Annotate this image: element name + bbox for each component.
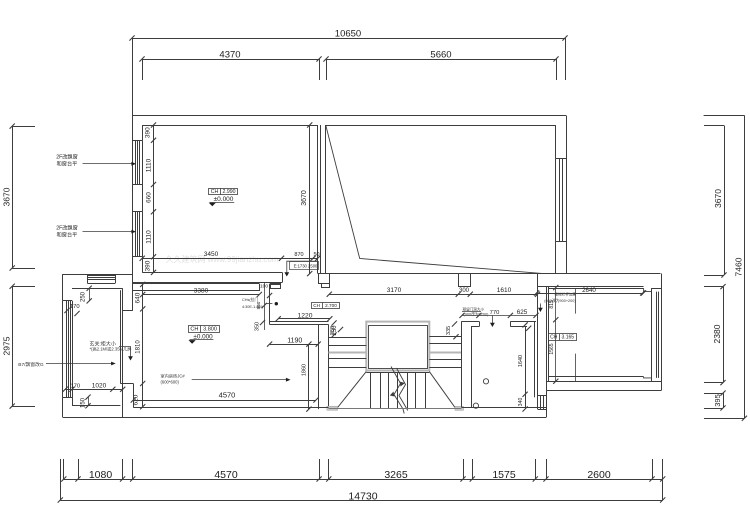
wall top interior bedroom1: [142, 125, 318, 127]
wall top interior room2: [326, 125, 556, 127]
svg-text:1080: 1080: [89, 469, 113, 481]
svg-text:7460: 7460: [734, 257, 744, 276]
svg-text:室内房砖JC#: 室内房砖JC#: [161, 373, 186, 380]
winder diagonal left: [338, 372, 367, 408]
svg-text:E:1730 2500: E:1730 2500: [294, 264, 318, 269]
svg-text:1575: 1575: [492, 469, 516, 481]
svg-text:3670: 3670: [713, 189, 723, 208]
break line zigzag: [391, 367, 404, 414]
svg-text:3670: 3670: [2, 187, 12, 206]
svg-text:3380: 3380: [194, 288, 209, 295]
svg-text:B7/飘窗改G: B7/飘窗改G: [18, 361, 44, 368]
svg-text:815: 815: [549, 300, 555, 309]
svg-text:1810: 1810: [136, 340, 142, 354]
svg-text:3170: 3170: [387, 287, 402, 294]
svg-text:CH: CH: [550, 335, 558, 341]
stair corner block right: [455, 406, 464, 410]
svg-text:100: 100: [260, 284, 268, 290]
balcony top wall: [538, 286, 644, 288]
balcony right glazing: [661, 274, 663, 391]
svg-text:1640: 1640: [518, 355, 524, 367]
svg-text:625: 625: [517, 309, 528, 316]
svg-text:250: 250: [81, 291, 87, 302]
svg-text:2F改飘窗: 2F改飘窗: [56, 153, 78, 161]
dim 3380 living room: [143, 294, 260, 296]
svg-text:770: 770: [490, 310, 500, 316]
pier below room2: [459, 274, 471, 287]
balcony bottom wall: [549, 376, 644, 378]
bathroom top wall left stub: [461, 321, 479, 323]
svg-text:350: 350: [255, 322, 261, 331]
bottom flight treads: [370, 372, 372, 408]
dim 10650 top overall: [132, 38, 565, 40]
svg-text:250: 250: [330, 326, 336, 335]
wall left exterior: [132, 116, 134, 275]
label: [549, 334, 577, 341]
dim 4570 living room bottom: [133, 400, 316, 402]
dim 2975 left: [12, 286, 14, 406]
svg-text:1220: 1220: [298, 312, 313, 319]
entry right wall: [132, 274, 134, 310]
svg-text:CH: CH: [211, 189, 219, 195]
wall left interior segments: [142, 125, 144, 140]
wall band below top rooms: [329, 273, 660, 275]
dim 2640 balcony: [537, 293, 643, 295]
svg-text:1110: 1110: [146, 158, 153, 172]
svg-text:3450: 3450: [204, 251, 219, 258]
svg-text:50: 50: [313, 252, 319, 258]
dim 1220: [278, 318, 330, 320]
svg-text:150: 150: [81, 397, 87, 408]
svg-text:CH: CH: [190, 327, 198, 333]
bathroom top wall right part: [510, 321, 536, 323]
living room left wall bottom jog: [120, 383, 133, 385]
svg-text:2380: 2380: [712, 324, 722, 343]
svg-text:3.800: 3.800: [203, 327, 217, 333]
svg-text:±0.000: ±0.000: [214, 196, 234, 203]
svg-text:和窗台平: 和窗台平: [57, 160, 78, 168]
dim 395 right: [723, 393, 725, 408]
dim 1810 living room left: [142, 310, 144, 384]
dim 14730 bottom overall: [60, 500, 662, 502]
living room right wall: [259, 284, 261, 291]
dim chain bedroom1 left interior: [153, 125, 155, 272]
dim 620 living room left: [142, 384, 144, 407]
dim 3450 bedroom1: [142, 258, 318, 260]
bathroom right wall: [534, 321, 536, 397]
stairwell void: [366, 322, 429, 371]
svg-text:2640: 2640: [582, 287, 596, 294]
svg-text:10650: 10650: [335, 29, 361, 40]
svg-text:1860: 1860: [302, 364, 308, 376]
svg-text:4370: 4370: [219, 50, 240, 61]
svg-text:3265: 3265: [384, 469, 408, 481]
svg-text:3.165: 3.165: [562, 335, 575, 341]
dim row 3170/300/1610: [329, 294, 537, 296]
dim 2380 right: [723, 287, 725, 383]
dim row 170/1020 entry bottom: [65, 389, 123, 391]
dim 7460 right overall: [744, 115, 746, 418]
wall right interior room2: [555, 125, 557, 158]
dim row 770/625: [462, 315, 536, 317]
svg-text:4570: 4570: [214, 469, 238, 481]
balcony notch tick: [641, 290, 646, 295]
bathroom left wall: [461, 321, 463, 407]
bathroom circles: [483, 379, 488, 384]
building bottom wall: [133, 407, 328, 409]
stair treads left flight: [329, 337, 367, 339]
svg-text:395: 395: [713, 394, 722, 407]
window W4 entry left: [63, 300, 72, 302]
balcony interior dim chain: [555, 288, 557, 381]
stairs bottom edge: [329, 408, 462, 410]
label: [189, 326, 220, 333]
door jamb leader bedroom1: [287, 261, 317, 273]
svg-text:2975: 2975: [2, 336, 12, 355]
balcony left wall: [546, 287, 548, 391]
svg-text:1610: 1610: [497, 287, 512, 294]
dim 5660 top: [326, 59, 556, 61]
svg-text:1020: 1020: [92, 383, 107, 390]
dim 250 entry: [89, 288, 91, 301]
living room top wall: [133, 283, 259, 285]
winder diagonal right: [429, 372, 455, 408]
svg-text:1565: 1565: [549, 343, 555, 354]
svg-text:预留门洞大小: 预留门洞大小: [463, 306, 485, 311]
svg-text:4570: 4570: [219, 391, 236, 400]
svg-text:14730: 14730: [348, 491, 377, 503]
stair corner block left: [327, 406, 338, 410]
door centreline arrow: [492, 315, 494, 323]
svg-text:CH: CH: [313, 303, 320, 308]
dim 150 entry bottom: [88, 397, 90, 406]
svg-text:300: 300: [459, 288, 470, 294]
pier right of bedroom door: [319, 274, 330, 284]
dim 1640 bathroom: [525, 327, 527, 395]
svg-text:(600*600): (600*600): [161, 380, 180, 385]
svg-text:2F改飘窗: 2F改飘窗: [56, 224, 78, 232]
step under wall bedroom1: [271, 284, 281, 289]
wall right exterior room2: [566, 116, 568, 274]
entry door recess: [87, 274, 89, 283]
bottom dimension chain: [64, 479, 663, 481]
svg-text:2.700: 2.700: [325, 303, 337, 308]
wall bottom bedroom1: [142, 272, 282, 274]
dim 340 bathroom: [525, 394, 527, 409]
svg-text:860: 860: [256, 301, 261, 309]
svg-text:340: 340: [518, 398, 524, 407]
label: [312, 303, 340, 309]
entry top interior wall: [72, 288, 123, 290]
entry bottom interior: [72, 397, 74, 406]
dim 3670 left: [12, 126, 14, 268]
stairs left wall: [318, 325, 320, 410]
note box floor level: [290, 262, 319, 270]
svg-text:CHs(拉门: CHs(拉门: [242, 297, 258, 302]
svg-text:660: 660: [146, 192, 153, 203]
window W1 left bedroom1: [132, 140, 142, 142]
window W3 right room2: [556, 158, 566, 160]
svg-text:1190: 1190: [287, 337, 302, 344]
stair treads right flight: [429, 336, 461, 338]
svg-text:2600: 2600: [587, 469, 611, 481]
dim 3670 interior bedroom1: [309, 125, 311, 274]
window W5 bathroom bottom: [538, 395, 547, 397]
svg-text:640: 640: [135, 292, 142, 303]
svg-text:1110: 1110: [146, 230, 153, 244]
wall top exterior: [132, 115, 566, 117]
svg-text:335: 335: [446, 326, 452, 335]
svg-text:楼梯栏杆加高: 楼梯栏杆加高: [555, 292, 577, 297]
dim 1860: [308, 344, 310, 409]
svg-text:390: 390: [145, 260, 152, 271]
svg-text:5660: 5660: [430, 50, 451, 61]
bottom flight first tread line: [366, 372, 429, 374]
dim 4370 top: [142, 59, 319, 61]
dim 640 living room left: [142, 284, 144, 309]
svg-text:3670: 3670: [301, 190, 308, 206]
wall stub hall to stairs: [270, 321, 329, 323]
svg-text:870: 870: [294, 252, 303, 258]
dim 1190: [270, 344, 319, 346]
ceiling slope diagonal room2: [326, 125, 542, 273]
svg-text:和窗台平: 和窗台平: [57, 231, 78, 239]
window W2 left bedroom1: [132, 211, 142, 213]
entry top exterior wall: [63, 274, 133, 276]
svg-text:390: 390: [145, 127, 152, 138]
wall between top rooms: [317, 125, 319, 274]
dim 3670 right: [724, 126, 726, 276]
entry left wall lower: [62, 301, 64, 397]
balcony divider lines: [575, 289, 577, 314]
label CH 2.990: [209, 189, 238, 195]
svg-text:170: 170: [70, 384, 80, 390]
svg-text:170: 170: [70, 304, 80, 310]
svg-text:2.990: 2.990: [223, 189, 236, 195]
